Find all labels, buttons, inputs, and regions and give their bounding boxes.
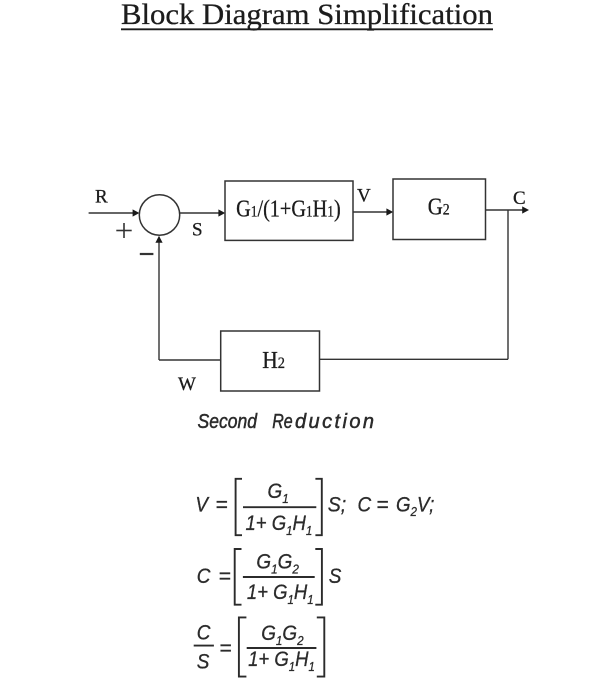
svg-text:C: C <box>197 622 211 645</box>
wire block G1 to block G2 <box>353 208 393 215</box>
wire H2 output to left <box>159 359 221 361</box>
equation 1: V = [G1/(1+G1H1)] S; C = G2V; <box>195 479 434 538</box>
equation 2: C = [G1G2/(1+G1H1)] S <box>197 549 342 607</box>
svg-text:S: S <box>197 651 210 674</box>
wire G2 output arrow to C <box>486 206 530 213</box>
svg-text:1+ G1H1: 1+ G1H1 <box>248 648 315 674</box>
block H2 rectangle <box>221 331 320 391</box>
svg-text:C: C <box>197 565 211 588</box>
block G2 rectangle <box>393 179 486 240</box>
svg-text:G2: G2 <box>428 193 450 220</box>
svg-text:1+ G1H1: 1+ G1H1 <box>247 581 314 607</box>
svg-text:Second: Second <box>198 410 258 432</box>
svg-text:S;: S; <box>328 494 346 517</box>
svg-text:G1G2: G1G2 <box>256 551 299 577</box>
caption Second Reduction <box>198 410 375 433</box>
svg-text:W: W <box>178 374 196 395</box>
svg-text:G1: G1 <box>268 480 289 506</box>
summing junction circle <box>139 195 179 235</box>
block G1/(1+G1H1) rectangle <box>225 181 353 240</box>
svg-text:duction: duction <box>295 411 374 433</box>
svg-text:=: = <box>215 493 227 516</box>
svg-text:Re: Re <box>272 410 292 432</box>
svg-text:1+ G1H1: 1+ G1H1 <box>246 512 313 538</box>
svg-text:=: = <box>219 637 231 660</box>
wire feedback tap vertical down <box>507 210 509 359</box>
svg-text:G1G2: G1G2 <box>261 622 304 648</box>
wire R input arrow <box>89 209 140 216</box>
title text <box>121 0 493 31</box>
svg-text:R: R <box>95 187 108 208</box>
svg-text:C: C <box>358 494 372 517</box>
svg-text:G2V;: G2V; <box>396 493 434 519</box>
equation 3: C/S = [G1G2/(1+G1H1)] <box>194 617 325 676</box>
svg-text:G1/(1+G1H1): G1/(1+G1H1) <box>236 195 341 222</box>
wire feedback bottom horizontal to H2 <box>320 358 509 360</box>
svg-text:V: V <box>195 494 209 517</box>
svg-text:S: S <box>192 220 203 241</box>
svg-text:=: = <box>219 565 231 588</box>
svg-text:S: S <box>329 565 342 588</box>
svg-text:C: C <box>513 188 526 209</box>
plus sign at summing junction <box>116 223 131 238</box>
svg-text:=: = <box>376 493 388 516</box>
minus sign at summing junction <box>140 253 154 255</box>
svg-text:Block Diagram Simplification: Block Diagram Simplification <box>121 0 493 31</box>
svg-text:H2: H2 <box>262 347 285 373</box>
wire summing junction to block G1 <box>180 209 225 216</box>
svg-text:V: V <box>357 185 371 206</box>
wire feedback vertical up into summing junction <box>155 236 162 360</box>
